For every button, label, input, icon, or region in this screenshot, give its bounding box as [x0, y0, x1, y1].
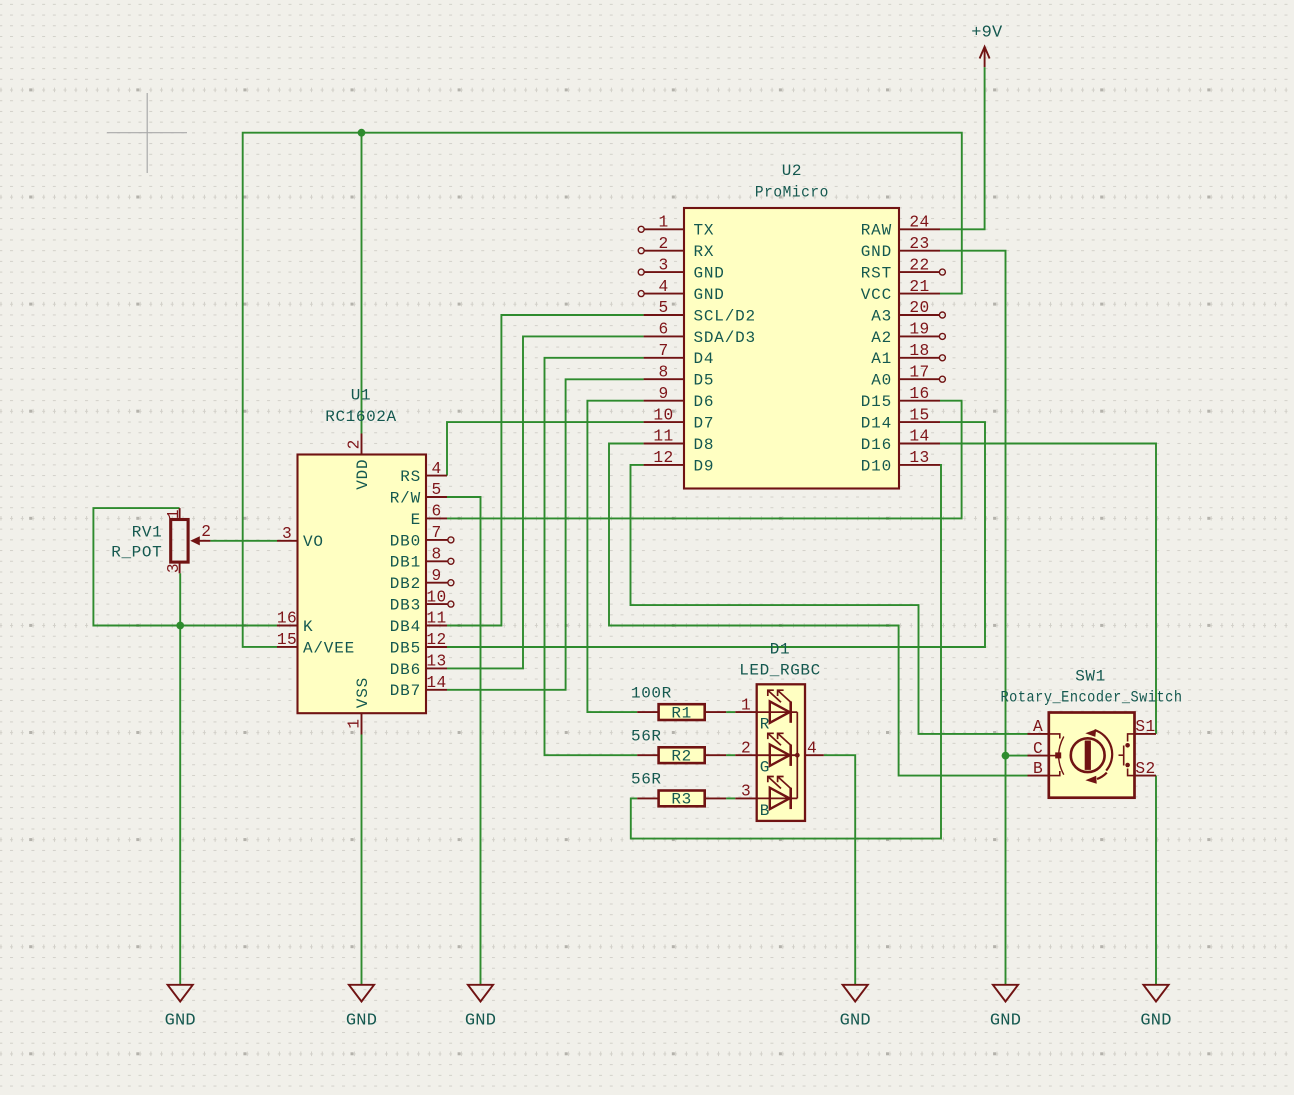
U1 pin 8 DB1: [390, 546, 454, 572]
svg-text:C: C: [1033, 740, 1043, 758]
U2 pin 16 D15: [861, 385, 940, 411]
svg-text:9: 9: [431, 567, 441, 585]
svg-text:RS: RS: [400, 468, 421, 486]
svg-text:DB1: DB1: [390, 554, 421, 572]
wire U2 GND pin 23 to GND rail: [940, 251, 1006, 984]
D1 pin 4: [805, 739, 824, 757]
svg-text:+9V: +9V: [971, 24, 1003, 43]
ground symbol at x=480.5: [468, 985, 493, 1002]
U1 pin 1 VSS (bottom): [346, 677, 372, 735]
RV1 pin 3 (bottom): [165, 562, 183, 573]
wire U1 RS pin 4 to U2 D7 pin 10: [447, 422, 644, 476]
+9V power symbol: [980, 47, 990, 67]
svg-text:DB4: DB4: [390, 618, 421, 636]
svg-text:12: 12: [426, 631, 446, 649]
svg-text:7: 7: [658, 342, 668, 360]
SW1 contact arc: [1059, 737, 1064, 775]
svg-text:R_POT: R_POT: [111, 543, 162, 561]
svg-text:13: 13: [426, 653, 446, 671]
svg-text:5: 5: [658, 299, 668, 317]
wire U1 DB7 pin 14 to U2 D5 pin 8: [447, 379, 644, 690]
U1 pin 16 K: [277, 610, 314, 636]
svg-text:2: 2: [658, 235, 668, 253]
SW1 pin A: [1028, 718, 1049, 736]
svg-text:VDD: VDD: [354, 459, 372, 490]
junction at pot ground node: [176, 622, 184, 630]
svg-text:GND: GND: [694, 265, 725, 283]
svg-text:R/W: R/W: [390, 489, 421, 507]
svg-text:R: R: [760, 716, 770, 734]
sheet origin crosshair: [107, 93, 187, 173]
microcontroller U2 ProMicro body: [684, 208, 899, 489]
wire +9V stub to U1 VDD pin 2: [361, 133, 363, 434]
svg-text:8: 8: [431, 546, 441, 564]
U1 pin 5 R/W: [390, 481, 447, 507]
U2 pin 17 A0: [871, 363, 945, 389]
D1 pin 2: [735, 739, 756, 757]
svg-text:16: 16: [277, 610, 297, 628]
wire U2 D9 pin 12 to SW1 A pin: [631, 465, 1028, 734]
svg-text:21: 21: [909, 278, 929, 296]
svg-text:16: 16: [909, 385, 929, 403]
svg-text:11: 11: [426, 610, 446, 628]
D1 pin 3: [735, 783, 756, 801]
svg-text:12: 12: [653, 449, 673, 467]
U2 pin 21 VCC: [861, 278, 940, 304]
svg-text:3: 3: [165, 563, 183, 573]
U2 pin 7 D4: [644, 342, 715, 368]
wire U2 D4 pin 7 to R2: [545, 358, 644, 755]
svg-text:A/VEE: A/VEE: [303, 639, 355, 657]
svg-text:RV1: RV1: [132, 524, 163, 542]
svg-text:GND: GND: [694, 286, 725, 304]
resistor R3 56R: [631, 771, 726, 809]
wire R1 to D1 pin 1: [726, 711, 735, 713]
U2 pin 23 GND: [861, 235, 940, 261]
svg-text:B: B: [1033, 760, 1043, 778]
svg-text:Rotary_Encoder_Switch: Rotary_Encoder_Switch: [1001, 689, 1183, 707]
svg-text:GND: GND: [840, 1012, 871, 1031]
svg-text:S1: S1: [1135, 718, 1155, 736]
svg-text:GND: GND: [990, 1012, 1021, 1031]
svg-text:DB3: DB3: [390, 597, 421, 615]
svg-text:4: 4: [431, 460, 441, 478]
svg-text:DB6: DB6: [390, 661, 421, 679]
wire U1 R/W pin 5 to GND: [447, 497, 481, 984]
wire RV1 pin1 - RV1 pin3 - U1 K pin 16 (pot ground loop): [93, 508, 277, 625]
svg-text:A0: A0: [871, 372, 892, 390]
svg-text:DB0: DB0: [390, 532, 421, 550]
wire U2 D8 pin 11 to SW1 B pin: [609, 444, 1028, 776]
wire +9V symbol to U2 RAW pin 24: [940, 67, 985, 229]
svg-text:SCL/D2: SCL/D2: [694, 307, 756, 325]
svg-text:R1: R1: [671, 704, 691, 722]
U2 pin 5 SCL/D2: [644, 299, 756, 325]
svg-text:D6: D6: [694, 393, 715, 411]
svg-text:D10: D10: [861, 457, 892, 475]
wire R3 to D1 pin 3: [726, 797, 735, 799]
svg-text:8: 8: [658, 363, 668, 381]
wire U1 VSS pin 1 to GND: [361, 735, 363, 985]
SW1 internal B lead: [1049, 771, 1060, 776]
U2 pin 20 A3: [871, 299, 945, 325]
svg-text:U1: U1: [351, 387, 371, 405]
svg-text:D8: D8: [694, 436, 715, 454]
svg-text:K: K: [303, 618, 313, 636]
U2 pin 24 RAW: [861, 214, 940, 240]
svg-text:11: 11: [653, 428, 673, 446]
svg-text:E: E: [411, 511, 421, 529]
svg-text:RST: RST: [861, 265, 892, 283]
svg-text:DB5: DB5: [390, 639, 421, 657]
SW1 pin C: [1028, 740, 1049, 758]
svg-text:S2: S2: [1135, 760, 1155, 778]
svg-text:SW1: SW1: [1075, 668, 1106, 686]
svg-text:ProMicro: ProMicro: [755, 184, 829, 202]
U2 pin 19 A2: [871, 321, 945, 347]
svg-text:10: 10: [653, 406, 673, 424]
wire SW1 S2 pin to GND: [1155, 776, 1157, 984]
ground symbol at x=1156: [1143, 985, 1168, 1002]
svg-text:56R: 56R: [631, 728, 662, 746]
svg-text:22: 22: [909, 256, 929, 274]
svg-text:1: 1: [658, 214, 668, 232]
svg-text:B: B: [760, 802, 770, 820]
U2 pin 14 D16: [861, 428, 940, 454]
svg-text:A: A: [1033, 718, 1043, 736]
wire R2 to D1 pin 2: [726, 754, 735, 756]
svg-text:100R: 100R: [631, 685, 672, 703]
wire SW1 C pin from GND rail: [1006, 755, 1028, 757]
svg-text:D4: D4: [694, 350, 715, 368]
svg-text:A1: A1: [871, 350, 892, 368]
svg-text:3: 3: [741, 783, 751, 801]
svg-text:GND: GND: [1140, 1012, 1171, 1031]
svg-text:2: 2: [741, 739, 751, 757]
U2 pin 11 D8: [644, 428, 715, 454]
svg-text:2: 2: [201, 523, 211, 541]
wire RV1 wiper to U1 VO pin 3: [210, 540, 277, 542]
U1 pin 6 E: [411, 503, 447, 529]
svg-text:20: 20: [909, 299, 929, 317]
svg-text:DB2: DB2: [390, 575, 421, 593]
wire U2 D10 pin 13 to R3: [631, 465, 941, 839]
svg-text:10: 10: [426, 588, 446, 606]
svg-text:D9: D9: [694, 457, 715, 475]
svg-text:A3: A3: [871, 307, 892, 325]
svg-text:D16: D16: [861, 436, 892, 454]
U1 pin 12 DB5: [390, 631, 447, 657]
svg-text:4: 4: [807, 739, 817, 757]
svg-text:RX: RX: [694, 243, 715, 261]
svg-text:56R: 56R: [631, 771, 662, 789]
svg-text:6: 6: [431, 503, 441, 521]
U1 pin 15 A/VEE: [277, 631, 355, 657]
svg-text:9: 9: [658, 385, 668, 403]
ground symbol at x=1005.5: [993, 985, 1018, 1002]
D1 internal LED G: [757, 733, 798, 766]
svg-text:24: 24: [909, 214, 929, 232]
U1 pin 2 VDD (top): [346, 434, 372, 490]
svg-text:A2: A2: [871, 329, 892, 347]
U1 pin 3 VO: [277, 525, 324, 551]
junction at GND rail / SW1 C pin: [1002, 752, 1010, 760]
svg-text:D14: D14: [861, 415, 892, 433]
SW1 pin S2: [1135, 760, 1157, 778]
U2 pin 9 D6: [644, 385, 715, 411]
rotary encoder SW1 Rotary_Encoder_Switch body: [1049, 713, 1135, 798]
svg-text:15: 15: [277, 631, 297, 649]
svg-text:VSS: VSS: [354, 677, 372, 708]
LCD module U1 RC1602A body: [298, 455, 427, 714]
RV1 pin 1 (top): [165, 508, 183, 519]
D1 internal common bus: [796, 712, 798, 798]
svg-text:18: 18: [909, 342, 929, 360]
U2 pin 8 D5: [644, 363, 715, 389]
svg-text:4: 4: [658, 278, 668, 296]
D1 internal junction dot: [795, 753, 800, 758]
D1 internal LED B: [757, 777, 798, 810]
SW1 internal A lead: [1049, 734, 1060, 739]
wire D1 pin 4 to GND: [824, 755, 855, 984]
svg-text:LED_RGBC: LED_RGBC: [739, 662, 821, 680]
svg-text:17: 17: [909, 363, 929, 381]
U2 pin 10 D7: [644, 406, 715, 432]
svg-text:VCC: VCC: [861, 286, 892, 304]
SW1 internal C contact: [1049, 755, 1057, 757]
svg-text:TX: TX: [694, 222, 715, 240]
wire U2 D16 pin 14 to SW1 S1 pin: [940, 444, 1156, 734]
svg-text:G: G: [760, 759, 770, 777]
U2 pin 15 D14: [861, 406, 940, 432]
wire U2 D6 pin 9 to R1: [587, 401, 643, 712]
svg-text:1: 1: [346, 718, 364, 728]
svg-text:7: 7: [431, 524, 441, 542]
svg-text:GND: GND: [861, 243, 892, 261]
wire U1 DB5 pin 12 to U2 D14 pin 15: [447, 422, 985, 647]
svg-text:RC1602A: RC1602A: [325, 408, 396, 426]
svg-text:14: 14: [909, 428, 929, 446]
U1 pin 13 DB6: [390, 653, 447, 679]
U2 pin 2 RX: [638, 235, 714, 261]
U1 pin 11 DB4: [390, 610, 447, 636]
svg-text:5: 5: [431, 481, 441, 499]
wire U1 E pin 6 to U2 D15 pin 16: [447, 401, 962, 519]
U2 pin 18 A1: [871, 342, 945, 368]
U2 pin 13 D10: [861, 449, 940, 475]
wire +9V net: A/VEE - VDD junction - VCC rail: [243, 133, 962, 647]
SW1 rotor circle: [1071, 738, 1105, 772]
svg-text:VO: VO: [303, 533, 324, 551]
svg-text:1: 1: [741, 696, 751, 714]
svg-text:GND: GND: [465, 1012, 496, 1031]
U1 pin 7 DB0: [390, 524, 454, 550]
svg-text:2: 2: [346, 439, 364, 449]
svg-text:D15: D15: [861, 393, 892, 411]
D1 pin 1: [735, 696, 756, 714]
LED D1 LED_RGBC body: [757, 684, 805, 821]
svg-text:D5: D5: [694, 372, 715, 390]
SW1 rotation arrow bottom: [1085, 773, 1106, 784]
SW1 rotor bar: [1085, 741, 1091, 770]
D1 internal LED R: [757, 690, 798, 723]
svg-text:13: 13: [909, 449, 929, 467]
svg-text:D1: D1: [770, 641, 790, 659]
svg-text:14: 14: [426, 674, 446, 692]
SW1 pin B: [1028, 760, 1049, 778]
U2 pin 22 RST: [861, 256, 946, 282]
svg-text:R3: R3: [671, 791, 691, 809]
U1 pin 4 RS: [400, 460, 447, 486]
svg-text:GND: GND: [165, 1012, 196, 1031]
U2 pin 1 TX: [638, 214, 714, 240]
SW1 push switch S1-S2: [1119, 734, 1135, 776]
svg-text:D7: D7: [694, 415, 715, 433]
RV1 pin 2 wiper arrow: [190, 523, 211, 545]
svg-text:U2: U2: [782, 162, 802, 180]
svg-text:6: 6: [658, 321, 668, 339]
U2 pin 6 SDA/D3: [644, 321, 756, 347]
ground symbol at x=361.5: [349, 985, 374, 1002]
svg-text:SDA/D3: SDA/D3: [694, 329, 756, 347]
wire U1 DB4 pin 11 to U2 SCL/D2 pin 5: [447, 315, 644, 626]
U2 pin 4 GND: [638, 278, 725, 304]
svg-text:3: 3: [282, 525, 292, 543]
junction at +9V rail / VDD stub: [358, 129, 366, 137]
svg-text:1: 1: [165, 509, 183, 519]
U2 pin 3 GND: [638, 256, 725, 282]
U1 pin 14 DB7: [390, 674, 447, 700]
U1 pin 10 DB3: [390, 588, 454, 614]
ground symbol at x=855.2: [843, 985, 868, 1002]
ground symbol at x=180.2: [168, 985, 193, 1002]
svg-text:RAW: RAW: [861, 222, 892, 240]
svg-text:R2: R2: [671, 747, 691, 765]
svg-text:DB7: DB7: [390, 682, 421, 700]
wire U1 DB6 pin 13 to U2 SDA/D3 pin 6: [447, 336, 644, 668]
resistor R1 100R: [631, 685, 726, 723]
svg-text:23: 23: [909, 235, 929, 253]
U1 pin 9 DB2: [390, 567, 454, 593]
svg-text:15: 15: [909, 406, 929, 424]
SW1 pin S1: [1135, 718, 1157, 736]
svg-text:GND: GND: [346, 1012, 377, 1031]
wire RV1 pin3 down to GND: [179, 573, 181, 984]
svg-text:3: 3: [658, 256, 668, 274]
svg-text:19: 19: [909, 321, 929, 339]
SW1 rotation arrow top: [1085, 729, 1112, 770]
U2 pin 12 D9: [644, 449, 715, 475]
resistor R2 56R: [631, 728, 726, 766]
potentiometer RV1 R_POT body: [171, 520, 188, 563]
